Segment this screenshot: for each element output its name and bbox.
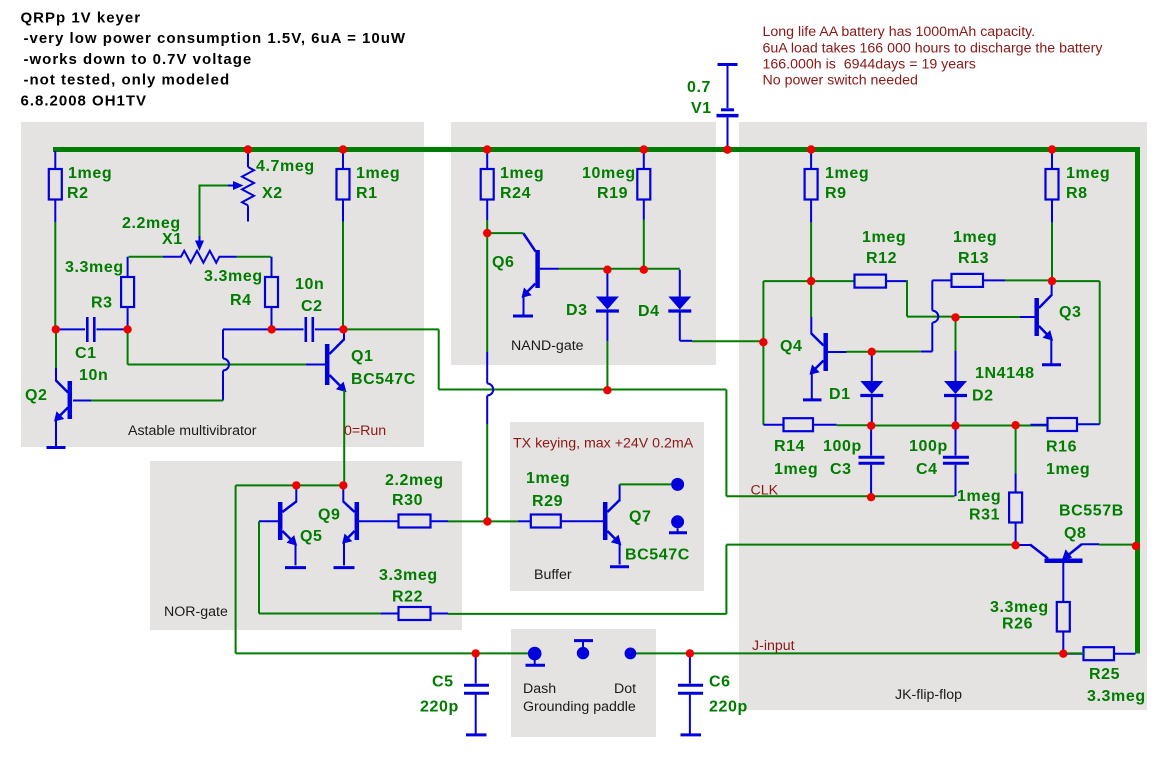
svg-text:Q8: Q8 (1064, 525, 1087, 542)
junction X2 top on rail (244, 145, 252, 153)
wire NOR input line (236, 485, 344, 653)
svg-text:R12: R12 (866, 250, 897, 267)
svg-text:CLK: CLK (751, 483, 779, 499)
resistor R31 (957, 425, 1022, 545)
svg-text:1meg: 1meg (1046, 461, 1090, 478)
junction R1 top on rail (339, 145, 347, 153)
junction node R8-Q3 (1048, 277, 1056, 285)
resistor R30 (385, 472, 448, 528)
junction node R31-Q8 base (1011, 541, 1019, 549)
svg-text:JK-flip-flop: JK-flip-flop (895, 687, 962, 703)
junction node D2-C4 (951, 421, 959, 429)
junction node C5 on J line (472, 649, 480, 657)
junction V1 on rail (723, 146, 731, 154)
svg-text:1meg: 1meg (500, 165, 544, 182)
wire Q5 base down to R22 line (259, 521, 381, 613)
junction node Q9 collector (339, 481, 347, 489)
block Grounding paddle box (511, 629, 656, 737)
block NOR-gate box (150, 461, 462, 630)
wire R12 right down to Q3 base line (907, 280, 956, 317)
resistor R2 (49, 151, 112, 222)
wire Q8 base line (726, 545, 1015, 615)
svg-text:Grounding paddle: Grounding paddle (523, 699, 636, 715)
svg-text:D1: D1 (829, 386, 851, 403)
wire J-input line right segment (636, 652, 1084, 654)
wire NAND output down with hop (487, 233, 493, 521)
svg-text:R14: R14 (774, 438, 805, 455)
block Buffer box (510, 422, 704, 591)
svg-text:D4: D4 (638, 303, 660, 320)
svg-text:10meg: 10meg (582, 165, 636, 182)
junction R8 top on rail (1048, 145, 1056, 153)
svg-text:R25: R25 (1089, 666, 1120, 683)
capacitor C5 (420, 653, 489, 733)
resistor R14 (763, 418, 871, 478)
ground Q5 (285, 566, 306, 569)
svg-text:R30: R30 (392, 492, 423, 509)
junction node Q4 base-D1 (868, 348, 876, 356)
svg-text:10n: 10n (79, 367, 108, 384)
svg-text:3.3meg: 3.3meg (65, 259, 124, 276)
svg-text:Q6: Q6 (492, 254, 515, 271)
junction node D4-R19 (640, 266, 648, 274)
svg-text:Buffer: Buffer (534, 567, 572, 583)
terminal Dash contact (526, 647, 546, 665)
svg-text:100p: 100p (909, 438, 948, 455)
junction node D3 anode (603, 266, 611, 274)
svg-text:4.7meg: 4.7meg (256, 158, 315, 175)
transistor Q5 (259, 485, 323, 565)
svg-text:X2: X2 (262, 185, 283, 202)
svg-text:1meg: 1meg (953, 229, 997, 246)
junction R9 top on rail (807, 145, 815, 153)
transistor Q4 (780, 333, 872, 399)
svg-text:R2: R2 (67, 185, 89, 202)
junction node D1-C3-R14 (867, 422, 875, 430)
svg-text:R9: R9 (825, 185, 847, 202)
terminal TX ground (669, 515, 687, 533)
wire Q6 base to diodes (559, 268, 680, 270)
svg-text:6.8.2008 OH1TV: 6.8.2008 OH1TV (21, 92, 148, 109)
junction node Q3 base-D2 (951, 313, 959, 321)
title text block (21, 10, 407, 110)
wire R9 down to Q4 collector (810, 223, 812, 335)
capacitor C4 (909, 426, 969, 497)
svg-text:R8: R8 (1066, 185, 1088, 202)
svg-text:R16: R16 (1046, 439, 1077, 456)
resistor R1 (337, 151, 401, 222)
svg-text:R1: R1 (356, 185, 378, 202)
svg-text:1meg: 1meg (68, 165, 112, 182)
svg-text:No power switch needed: No power switch needed (763, 73, 918, 89)
wire Q1 emitter down to NOR gate (343, 390, 345, 486)
ground C5 (466, 733, 487, 736)
resistor R25 (1063, 647, 1145, 705)
junction node C1-R3 (123, 325, 131, 333)
wire R30 to R29 (448, 520, 518, 522)
svg-text:2.2meg: 2.2meg (385, 472, 444, 489)
diode D2 (944, 317, 1035, 425)
svg-text:NOR-gate: NOR-gate (164, 604, 228, 620)
wire left feedback loop (763, 281, 811, 425)
svg-text:-not tested, only modeled: -not tested, only modeled (24, 72, 231, 89)
wire VCC rail top (53, 147, 1138, 152)
svg-text:R26: R26 (1002, 616, 1033, 633)
resistor R3 (65, 257, 134, 330)
ground Q9 (334, 566, 355, 569)
svg-text:Astable multivibrator: Astable multivibrator (128, 423, 257, 439)
ground C6 (681, 733, 702, 736)
svg-text:C2: C2 (301, 298, 323, 315)
wire D4 to JK flip-flop (680, 340, 764, 342)
wire C2 node to NAND area and down (343, 329, 726, 389)
transistor Q7 (605, 484, 690, 564)
svg-text:Dash: Dash (523, 681, 556, 697)
resistor R29 (518, 470, 603, 528)
transistor Q1 (327, 329, 416, 392)
svg-text:Q3: Q3 (1059, 304, 1082, 321)
svg-text:Long life AA battery has 1000m: Long life AA battery has 1000mAh capacit… (763, 24, 1036, 40)
diode D4 (638, 270, 691, 341)
capacitor C6 (678, 653, 748, 733)
wire R19 down to diode node (643, 220, 645, 270)
svg-text:BC547C: BC547C (351, 371, 416, 388)
svg-text:J-input: J-input (752, 638, 795, 654)
svg-text:R29: R29 (532, 493, 563, 510)
ground Q7 (610, 565, 629, 568)
svg-text:R4: R4 (230, 292, 252, 309)
wire R4 node left, down with hop, to Q2 base (73, 329, 272, 400)
wire Q7 collector to TX terminal (620, 483, 671, 485)
svg-text:6uA load takes 166 000 hours t: 6uA load takes 166 000 hours to discharg… (763, 41, 1104, 57)
svg-text:QRPp 1V keyer: QRPp 1V keyer (21, 10, 142, 27)
svg-text:0.7: 0.7 (687, 79, 711, 96)
svg-text:Q2: Q2 (25, 387, 48, 404)
svg-text:NAND-gate: NAND-gate (511, 338, 584, 354)
ground Q2 (47, 446, 66, 449)
wire X2 wiper arm (195, 181, 244, 251)
transistor Q2 (25, 330, 70, 447)
junction node NAND out to R30-R29 (483, 517, 491, 525)
trimmer X2 (242, 151, 315, 222)
svg-text:2.2meg: 2.2meg (122, 215, 181, 232)
wire R24 to node (486, 220, 488, 233)
junction node C2-R1-Q1 (339, 325, 347, 333)
ground Q3 (1042, 363, 1061, 366)
junction node D3 cathode on clock wire (603, 386, 611, 394)
svg-text:Dot: Dot (614, 681, 636, 697)
junction node R26-R25 on J line (1059, 650, 1067, 658)
svg-text:BC557B: BC557B (1059, 503, 1124, 520)
junction node C6 on J line (686, 649, 694, 657)
svg-text:R24: R24 (500, 185, 531, 202)
resistor R4 (204, 257, 278, 330)
svg-text:166.000h is 6944days = 19 yea: 166.000h is 6944days = 19 years (763, 57, 976, 73)
svg-text:1meg: 1meg (356, 165, 400, 182)
wire VCC rail right side (1135, 147, 1140, 654)
transistor Q3 (956, 281, 1082, 364)
junction node R24-Q6 (483, 229, 491, 237)
ground Q4 (803, 398, 822, 401)
svg-text:R22: R22 (392, 589, 423, 606)
svg-text:1meg: 1meg (957, 488, 1001, 505)
svg-text:R3: R3 (91, 295, 113, 312)
wire R8 down to Q3 collector node (1051, 223, 1053, 282)
terminal Dot contact (625, 648, 637, 660)
svg-text:1meg: 1meg (862, 229, 906, 246)
svg-text:R19: R19 (597, 185, 628, 202)
junction node C1-Q2 (52, 325, 60, 333)
svg-text:100p: 100p (823, 438, 862, 455)
resistor R16 (1031, 418, 1100, 478)
svg-text:D3: D3 (566, 302, 588, 319)
junction node C3 on CLK line (867, 493, 875, 501)
diode D3 (566, 270, 619, 342)
svg-text:1meg: 1meg (526, 470, 570, 487)
transistor Q6 (492, 234, 559, 316)
potentiometer X1 (122, 215, 271, 263)
resistor R22 (379, 567, 448, 620)
svg-text:10n: 10n (295, 276, 324, 293)
svg-text:Q9: Q9 (318, 507, 341, 524)
junction node R9-R12 (807, 277, 815, 285)
svg-text:R13: R13 (958, 250, 989, 267)
resistor R24 (481, 151, 545, 220)
capacitor C1 (56, 317, 128, 384)
wire R2 to C1 node (54, 222, 56, 330)
svg-text:Q5: Q5 (300, 528, 323, 545)
wire CLK line (726, 390, 954, 497)
junction R24 top on rail (483, 145, 491, 153)
svg-text:1meg: 1meg (774, 461, 818, 478)
svg-text:1meg: 1meg (1066, 165, 1110, 182)
svg-text:C5: C5 (432, 674, 454, 691)
diode D1 (829, 352, 883, 426)
svg-text:-very low power consumption 1.: -very low power consumption 1.5V, 6uA = … (24, 30, 407, 47)
svg-text:220p: 220p (709, 699, 748, 716)
svg-text:TX keying, max +24V 0.2mA: TX keying, max +24V 0.2mA (513, 436, 694, 452)
svg-text:3.3meg: 3.3meg (204, 268, 263, 285)
block JK-flip-flop box (739, 122, 1147, 710)
svg-text:C6: C6 (709, 674, 731, 691)
capacitor C3 (823, 426, 885, 497)
terminal paddle common (574, 641, 593, 660)
svg-text:1N4148: 1N4148 (975, 365, 1035, 382)
wire D3 to clock line (606, 341, 608, 390)
resistor R12 (811, 229, 907, 288)
junction node Q5 collector (292, 481, 300, 489)
terminal TX out (671, 478, 684, 491)
resistor R9 (805, 151, 870, 223)
resistor R26 (990, 599, 1070, 654)
wire Q3 collector node to R16 loop (1052, 281, 1100, 424)
svg-text:Q1: Q1 (351, 348, 374, 365)
svg-text:-works down to 0.7V voltage: -works down to 0.7V voltage (24, 51, 253, 68)
resistor R8 (1046, 151, 1111, 223)
ground Q6 (513, 315, 533, 318)
junction node D4 line to left loop (759, 338, 767, 346)
svg-text:1meg: 1meg (825, 165, 869, 182)
svg-text:Q7: Q7 (629, 509, 652, 526)
svg-text:220p: 220p (420, 699, 459, 716)
svg-text:C4: C4 (916, 461, 938, 478)
wire node to Q6 collector (487, 232, 523, 234)
resistor R13 (932, 229, 1052, 287)
wire R22 to Q8 base line (448, 613, 726, 615)
svg-text:C1: C1 (75, 345, 97, 362)
svg-text:C3: C3 (830, 461, 852, 478)
resistor R19 (582, 151, 650, 220)
junction node R31 top (1011, 421, 1019, 429)
svg-text:Q4: Q4 (780, 338, 803, 355)
note battery text block (763, 24, 1104, 89)
svg-text:R31: R31 (969, 507, 1000, 524)
svg-text:D2: D2 (972, 388, 994, 405)
block Astable multivibrator box (21, 122, 424, 447)
wire R13 left down with hop to Q4 base line (872, 280, 939, 351)
svg-text:3.3meg: 3.3meg (379, 567, 438, 584)
wire D1/D2/R31 node line (871, 425, 1047, 427)
junction node Q8 emitter on rail (1132, 542, 1140, 550)
svg-text:3.3meg: 3.3meg (1087, 688, 1146, 705)
block NAND-gate box (451, 122, 716, 365)
wire J-input line left segment (236, 652, 529, 654)
svg-text:3.3meg: 3.3meg (990, 599, 1049, 616)
transistor Q9 (318, 485, 399, 565)
svg-text:V1: V1 (691, 100, 712, 117)
wire R3 node down and across to Q1 base (128, 329, 325, 364)
battery V1 (687, 65, 739, 148)
transistor Q8 (1016, 503, 1136, 603)
wire R1 down to C2 node (342, 222, 344, 331)
svg-text:BC547C: BC547C (625, 547, 690, 564)
svg-text:0=Run: 0=Run (344, 423, 386, 439)
junction node R4-C2 (268, 325, 276, 333)
svg-text:X1: X1 (162, 231, 183, 248)
junction R19 top on rail (640, 145, 648, 153)
capacitor C2 (272, 276, 344, 342)
